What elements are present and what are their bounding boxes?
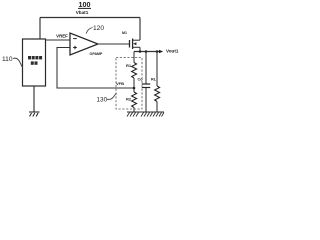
junction dot FET source bbox=[139, 50, 142, 53]
wire output to R1 bbox=[133, 52, 135, 63]
wire right rail drop to FET drain bbox=[139, 18, 141, 41]
svg-text:R1: R1 bbox=[126, 63, 132, 68]
wire R2 to ground bbox=[133, 108, 135, 113]
ground bus bottom right bbox=[127, 112, 164, 117]
svg-text:R2: R2 bbox=[126, 97, 132, 102]
label 110 bbox=[2, 56, 23, 68]
block U110 reference voltage circuit bbox=[23, 39, 46, 86]
svg-text:100: 100 bbox=[79, 0, 91, 9]
svg-text:M1: M1 bbox=[122, 31, 127, 35]
svg-text:OPAMP: OPAMP bbox=[90, 52, 104, 56]
resistor RL load bbox=[155, 86, 160, 102]
figure number 100 bbox=[78, 0, 91, 9]
dashed box 130 feedback divider bbox=[116, 58, 142, 110]
op-amp U120 bbox=[70, 33, 98, 55]
svg-text:110: 110 bbox=[2, 56, 13, 63]
svg-text:120: 120 bbox=[93, 25, 104, 32]
svg-text:VREF: VREF bbox=[56, 34, 68, 39]
wire output node line bbox=[134, 51, 160, 53]
resistor R1 bbox=[132, 63, 137, 79]
svg-text:Vbat1: Vbat1 bbox=[76, 10, 89, 15]
wire top supply rail bbox=[40, 17, 140, 19]
wire left rail drop to block 110 bbox=[39, 18, 41, 40]
svg-text:Vout1: Vout1 bbox=[166, 48, 179, 53]
resistor R2 bbox=[132, 92, 137, 108]
wire VREF block output to op-amp inverting input bbox=[46, 39, 71, 41]
svg-text:130: 130 bbox=[97, 97, 108, 104]
wire feedback to op-amp non-inverting input bbox=[57, 48, 134, 89]
wire output to load resistor bbox=[156, 52, 158, 87]
wire R1 to VFB node bbox=[133, 78, 135, 92]
transistor M1 pass PMOS bbox=[130, 39, 141, 50]
label 120 bbox=[86, 25, 104, 34]
capacitor Co bbox=[142, 84, 150, 88]
wire FET source to output node bbox=[139, 47, 141, 51]
junction dot load branch bbox=[156, 50, 159, 53]
junction dot capacitor branch bbox=[145, 50, 148, 53]
wire block to ground bbox=[33, 86, 35, 112]
wire output to capacitor Co bbox=[145, 52, 147, 85]
svg-text:RL: RL bbox=[151, 78, 157, 82]
wire capacitor to ground bbox=[145, 88, 147, 113]
junction dot VFB bbox=[133, 87, 136, 90]
svg-text:Co: Co bbox=[138, 78, 144, 82]
svg-text:VFB: VFB bbox=[116, 81, 124, 86]
ground under block 110 bbox=[29, 112, 40, 117]
wire op-amp output to FET gate bbox=[98, 43, 129, 45]
label 130 bbox=[97, 93, 117, 104]
wire RL to ground bbox=[156, 102, 158, 113]
output arrow bbox=[159, 50, 163, 54]
